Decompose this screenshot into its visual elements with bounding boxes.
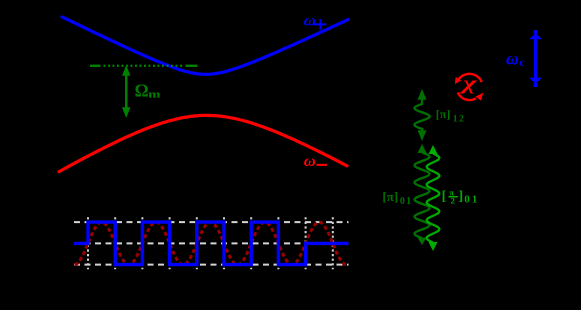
green spring [pi]01 (lower left, dark) [415,153,430,239]
Omega_m double arrow [122,65,130,118]
label omega- [304,153,327,170]
blue square wave [74,222,349,265]
red curve omega- (lower branch of avoided crossing) [59,115,347,171]
svg-text:]: ] [459,189,464,204]
svg-text:[: [ [442,189,447,204]
svg-text:12: 12 [453,114,466,124]
svg-text:2: 2 [451,196,455,206]
red chi circulation arrows [458,74,482,100]
green dotted level line [90,65,198,67]
svg-text:m: m [148,89,160,101]
blue curve omega+ (upper branch of avoided crossing) [62,17,348,74]
svg-text:c: c [519,55,525,69]
label [pi]12 [436,107,466,125]
svg-text:ω: ω [506,48,519,68]
label [pi/2]01 [442,188,480,206]
pulse plot: gray dashed horizontal gridlines [74,222,349,265]
svg-text:ω: ω [304,153,316,170]
label omega+ [304,13,327,30]
svg-text:ω: ω [304,13,316,30]
blue omega_c double arrow [529,30,542,87]
green spring pi_12 (upper, dark) [414,100,429,131]
svg-text:[π]: [π] [436,107,451,121]
green spring [pi/2]01 (lower right, bright) [427,154,440,243]
label [pi]01 [382,189,412,207]
pulse plot: gray dotted vertical gridlines [88,217,333,269]
svg-text:Ω: Ω [135,80,149,100]
svg-text:[π]: [π] [382,189,398,204]
svg-text:01: 01 [400,196,412,207]
dark red dashed sine drive [75,222,346,264]
label Omega_m [135,80,161,100]
svg-text:01: 01 [464,194,479,205]
label omega_c [506,48,525,69]
